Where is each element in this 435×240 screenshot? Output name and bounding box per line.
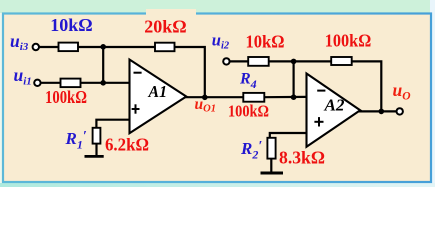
terminal u_i1 [34,80,40,86]
wire A2 output to terminal u_O [359,110,396,112]
wire R2' to ground [270,159,272,173]
svg-text:100kΩ: 100kΩ [45,87,87,107]
wire R(20k) to bend [174,47,205,97]
node u_O junction [379,109,385,115]
resistor 10k (u_i3 input) [59,43,79,52]
wire A2 non-inverting input [270,133,307,138]
svg-text:A2: A2 [323,95,344,114]
wire R(10k) second to R(100k) feedback through node N3 [269,60,332,62]
svg-text:A1: A1 [148,82,167,101]
wire R(100k) feedback to bend down to output [352,61,382,111]
wire node N3 to node N4 vertical [293,61,295,97]
resistor R1' vertical [93,128,101,144]
terminal u_i2 [223,58,229,64]
wire A1 non-inverting input [96,120,129,128]
resistor R4 [243,93,264,102]
svg-text:10kΩ: 10kΩ [50,15,92,35]
wire node N1 to node N2 vertical [102,47,104,83]
node u_O1 junction [202,95,208,101]
svg-text:20kΩ: 20kΩ [144,17,186,37]
op-amp A1 [130,60,187,134]
wire R(100k) to A1 inverting input [81,82,130,84]
ground (A1 side) [85,155,104,158]
terminal u_i3 [33,44,39,50]
svg-text:6.2kΩ: 6.2kΩ [105,135,149,155]
ground (A2 side) [261,172,284,175]
resistor R2' vertical [267,138,275,159]
node N1 [100,44,106,50]
wire R(10k) to R(20k) through node N1 [78,46,156,48]
wire u_i2 to R(10k) second [230,60,249,62]
wire A1 output to R4 [185,96,244,98]
resistor 100k (u_i1 input) [61,79,81,88]
schematic panel [3,14,431,183]
svg-text:100kΩ: 100kΩ [228,102,269,121]
svg-text:10kΩ: 10kΩ [246,31,285,51]
terminal u_O [397,108,403,114]
outer slide background [0,0,435,187]
node N3 [291,59,297,65]
op-amp A2 [307,74,361,147]
cover over border behind 20k label box [146,9,196,17]
svg-text:100kΩ: 100kΩ [325,31,372,51]
svg-text:8.3kΩ: 8.3kΩ [279,147,325,167]
resistor 10k (u_i2 input) [248,57,269,66]
node N4 [291,94,297,100]
node N2 [100,80,106,86]
wire u_i3 to R(10k) [39,46,59,48]
wire R1' to ground [95,144,97,157]
panel border frame [3,14,431,183]
resistor 100k (A2 feedback) [331,57,352,65]
resistor 20k (A1 feedback) [155,43,175,52]
wire u_i1 to R(100k) [41,82,61,84]
wire R4 to A2 inverting input [264,96,307,98]
